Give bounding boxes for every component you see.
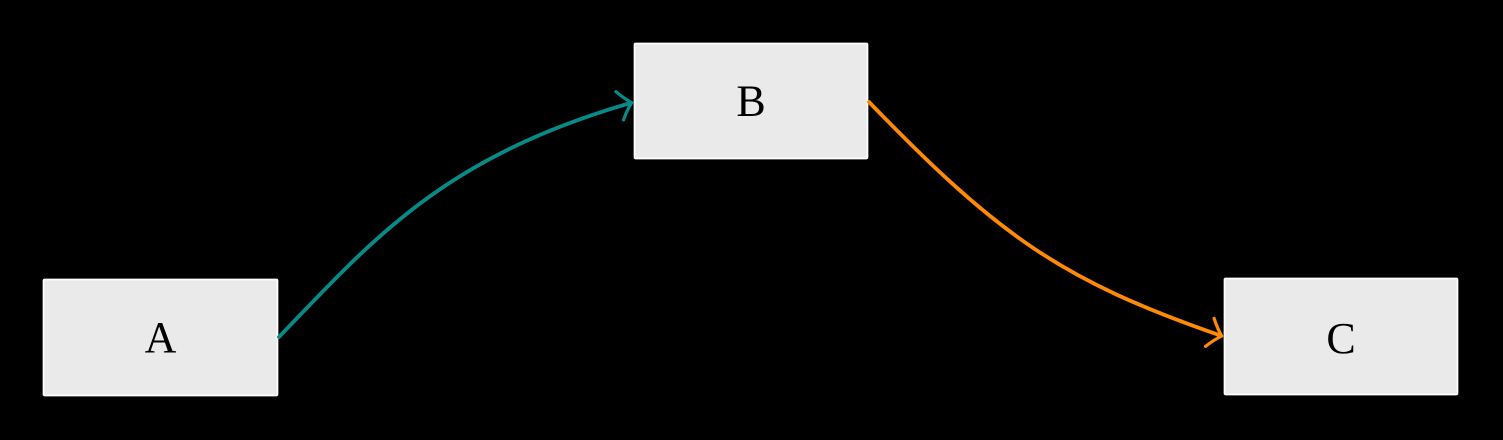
svg-text:C: C [1326,314,1355,363]
svg-text:A: A [145,313,177,362]
svg-text:B: B [736,77,765,126]
